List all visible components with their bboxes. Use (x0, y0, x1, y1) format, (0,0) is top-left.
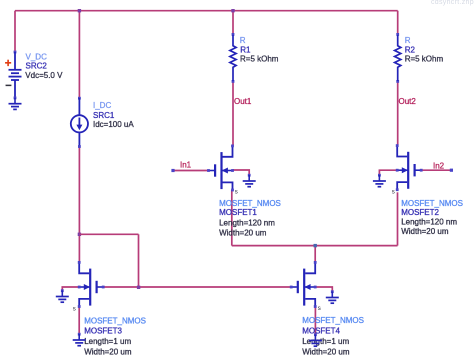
wire M2 source down (397, 192, 399, 245)
voltage source V_DC SRC2 (5, 51, 22, 98)
wire I_DC top vertical (78, 11, 80, 98)
wire M3 source to ground (78, 307, 80, 335)
node junction top rail / R1 (231, 9, 234, 12)
svg-text:s: s (235, 189, 238, 195)
resistor R2 (395, 33, 401, 83)
ground M4 source (309, 333, 322, 346)
svg-text:MOSFET_NMOS: MOSFET_NMOS (401, 199, 463, 208)
wire M1 bulk to ground (233, 170, 250, 175)
svg-text:In1: In1 (180, 161, 192, 170)
transistor MOSFET2 (mirrored) (396, 144, 423, 191)
svg-text:R: R (240, 36, 246, 45)
node junction diode-connect tap (78, 233, 81, 236)
node junction top rail / I_DC (78, 9, 81, 12)
svg-text:s: s (73, 307, 76, 313)
svg-text:−: − (5, 80, 11, 92)
wire gate bus M3-M4 (103, 286, 291, 288)
svg-text:Vdc=5.0 V: Vdc=5.0 V (25, 71, 63, 80)
svg-text:Idc=100 uA: Idc=100 uA (93, 120, 134, 129)
wire R1 top vertical (232, 11, 234, 34)
wire M4 source to ground (314, 307, 316, 335)
node junction gate bus (137, 286, 140, 289)
svg-text:s: s (318, 306, 321, 312)
svg-text:Width=20 um: Width=20 um (219, 228, 267, 237)
resistor R1 (230, 33, 236, 83)
svg-text:In2: In2 (433, 161, 445, 170)
svg-text:Width=20 um: Width=20 um (401, 227, 449, 236)
wire In1 to M1 gate (174, 170, 209, 172)
svg-text:MOSFET2: MOSFET2 (401, 208, 439, 217)
svg-text:Length=120 nm: Length=120 nm (219, 218, 275, 227)
svg-text:MOSFET_NMOS: MOSFET_NMOS (84, 317, 146, 326)
svg-text:Width=20 um: Width=20 um (302, 347, 350, 356)
svg-text:R1: R1 (240, 45, 251, 54)
ground M3 bulk (56, 289, 69, 302)
svg-text:V_DC: V_DC (26, 52, 48, 61)
svg-text:SRC2: SRC2 (26, 61, 48, 70)
port In1 (171, 169, 174, 172)
svg-text:SRC1: SRC1 (93, 111, 115, 120)
svg-text:MOSFET_NMOS: MOSFET_NMOS (219, 199, 281, 208)
wire diode-connect horizontal (79, 233, 138, 235)
svg-text:R=5 kOhm: R=5 kOhm (240, 54, 279, 63)
wire M4 drain up (314, 246, 316, 263)
ground M1 bulk (243, 174, 256, 187)
svg-text:cdsyhcrt.zhp: cdsyhcrt.zhp (431, 0, 474, 6)
svg-text:Out2: Out2 (399, 97, 417, 106)
svg-text:s: s (392, 190, 395, 196)
wire M2 gate to In2 (421, 169, 451, 171)
wire R2 top vertical (397, 11, 399, 34)
svg-text:Width=20 um: Width=20 um (84, 347, 132, 356)
wire R1 to M1 drain (net Out1) (232, 81, 234, 145)
svg-text:Length=120 nm: Length=120 nm (401, 217, 457, 226)
svg-text:+: + (5, 58, 12, 70)
svg-text:MOSFET_NMOS: MOSFET_NMOS (302, 316, 364, 325)
svg-text:MOSFET3: MOSFET3 (84, 326, 122, 335)
wire M2 bulk to ground (379, 170, 397, 175)
ground M2 bulk (373, 174, 386, 187)
svg-text:Out1: Out1 (234, 97, 252, 106)
svg-text:R: R (405, 36, 411, 45)
wire top rail (15, 10, 398, 12)
transistor MOSFET1 (207, 145, 234, 192)
transistor MOSFET3 (mirrored) (78, 261, 105, 308)
svg-text:R2: R2 (405, 45, 416, 54)
wire I_DC to M3 drain (78, 147, 80, 263)
svg-text:I_DC: I_DC (93, 101, 111, 110)
ground M3 source (73, 333, 86, 346)
node junction common source / M4 drain (314, 244, 317, 247)
ground under SRC2 (9, 97, 22, 110)
svg-text:Length=1 um: Length=1 um (84, 337, 131, 346)
svg-text:Length=1 um: Length=1 um (302, 337, 349, 346)
svg-text:MOSFET4: MOSFET4 (302, 326, 340, 335)
ground M4 bulk (326, 290, 339, 303)
wire M4 bulk to ground (315, 287, 332, 292)
wire V_DC top vertical (14, 11, 16, 51)
svg-text:R=5 kOhm: R=5 kOhm (405, 54, 444, 63)
svg-text:MOSFET1: MOSFET1 (219, 208, 257, 217)
wire M3 bulk to ground (62, 287, 79, 291)
wire R2 to M2 drain (net Out2) (397, 81, 399, 145)
wire common source horizontal (232, 245, 398, 247)
wire M1 source down (231, 190, 233, 246)
transistor MOSFET4 (290, 261, 317, 308)
wire diode-connect vertical (138, 234, 140, 287)
port In2 (450, 169, 453, 172)
current source I_DC SRC1 (71, 97, 88, 148)
